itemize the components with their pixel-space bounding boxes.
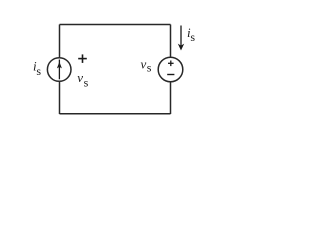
svg-text:s: s (190, 30, 195, 44)
current source arrowhead (57, 62, 62, 69)
wire bottom (60, 113, 171, 115)
wire right lower (170, 82, 172, 114)
current arrow top right shaft (180, 26, 182, 48)
wire left lower (59, 82, 61, 115)
current source arrow shaft (58, 60, 60, 80)
current arrow top right head (178, 44, 184, 51)
voltage source plus (168, 61, 174, 67)
svg-text:v: v (77, 70, 83, 85)
svg-text:s: s (36, 64, 41, 78)
voltage source circle (158, 57, 183, 82)
wire left upper (59, 25, 61, 59)
voltage source minus (167, 74, 174, 76)
wire right upper (170, 25, 172, 58)
plus sign (v_s polarity) (78, 54, 87, 63)
current source circle (47, 58, 71, 82)
svg-text:s: s (147, 61, 152, 75)
wire top (60, 24, 171, 26)
svg-text:v: v (141, 56, 147, 71)
svg-text:s: s (84, 75, 89, 89)
